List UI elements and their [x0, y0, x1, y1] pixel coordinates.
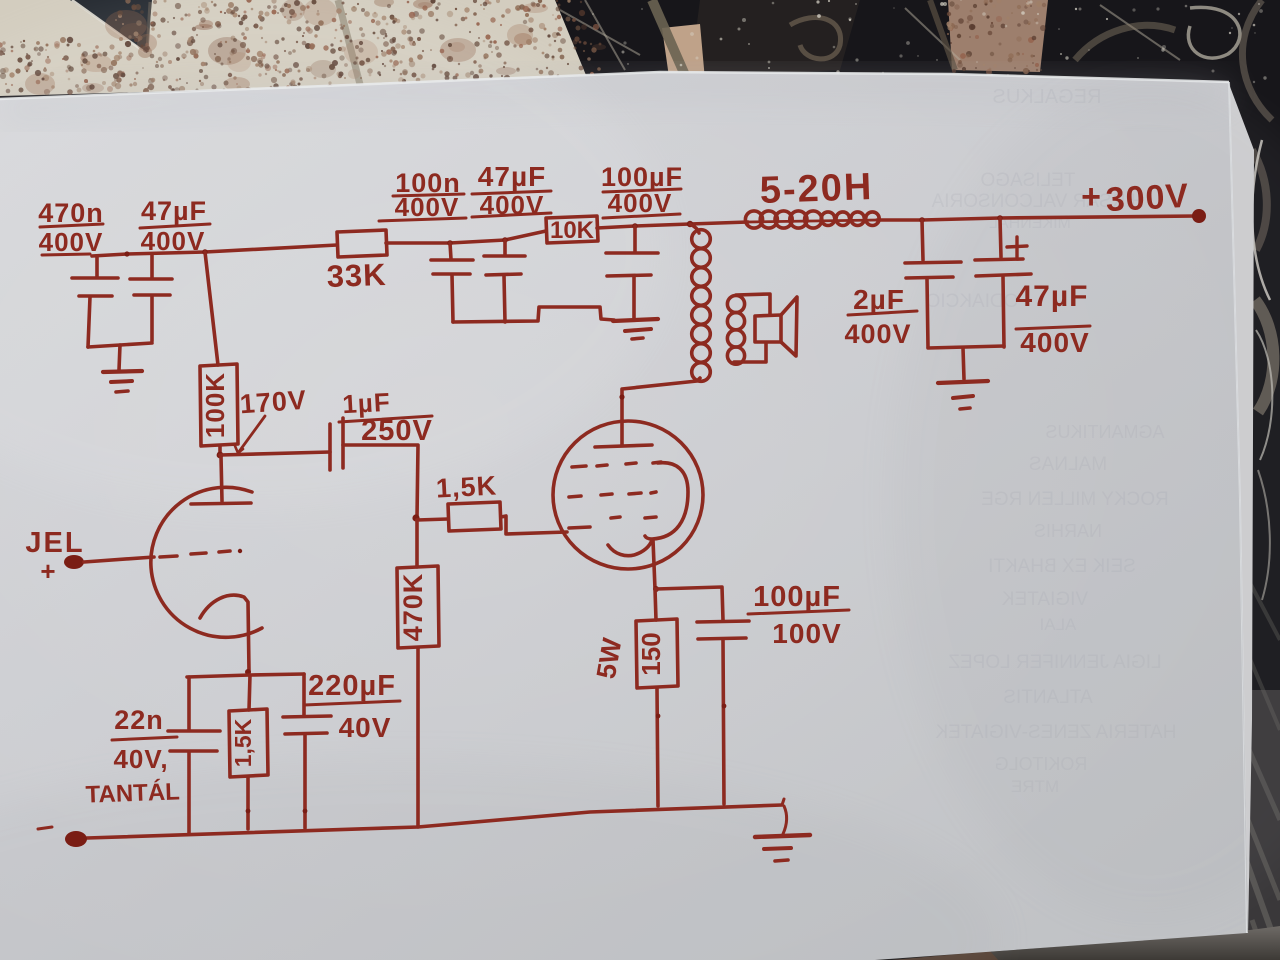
svg-text:ATLANTIS: ATLANTIS — [1003, 687, 1092, 708]
svg-text:+: + — [40, 556, 55, 586]
label C4 47uF/400V — [478, 161, 546, 220]
svg-text:NARHIS: NARHIS — [1034, 521, 1102, 541]
svg-text:47µF: 47µF — [141, 196, 207, 226]
ground symbol main — [755, 835, 810, 837]
svg-text:47µF: 47µF — [1016, 280, 1089, 313]
svg-text:400V: 400V — [141, 226, 206, 256]
svg-text:ROKITOLG: ROKITOLG — [995, 754, 1088, 774]
svg-text:400V: 400V — [39, 227, 104, 257]
wire rail 10K to choke — [597, 222, 748, 228]
label C6 2uF/400V — [844, 284, 911, 349]
svg-text:1,5K: 1,5K — [230, 718, 256, 767]
capacitor C9 22n/40V tantal — [187, 677, 191, 730]
anode V2 — [620, 421, 624, 445]
svg-text:100µF: 100µF — [753, 581, 841, 613]
label +300V — [1081, 177, 1190, 219]
tile ornaments — [1188, 7, 1240, 58]
svg-text:REGALKUS: REGALKUS — [993, 86, 1102, 108]
wire C8 to grid node — [343, 445, 418, 518]
capacitor C5 100uF/400V — [633, 226, 637, 252]
resistor R4 1,5K — [448, 502, 501, 531]
wire main ground bus — [87, 805, 782, 838]
svg-text:LIGIA JENNIFER LOPEZ: LIGIA JENNIFER LOPEZ — [948, 652, 1162, 673]
tube V1 envelope — [151, 487, 262, 637]
label C8 1uF/250V — [342, 387, 433, 447]
node JEL input terminal — [64, 555, 84, 569]
capacitor C8 1uF/250V coupling — [328, 424, 332, 470]
svg-text:TELISAGO: TELISAGO — [980, 170, 1075, 191]
plus mark C7 — [1007, 246, 1027, 247]
faint show-through text from reverse side — [926, 86, 1177, 796]
capacitor C4 47uF/400V mid — [503, 240, 507, 254]
resistor R7 150 5W — [636, 619, 678, 688]
ground symbol under C6 C7 — [938, 381, 988, 383]
svg-text:TANTÁL: TANTÁL — [85, 777, 180, 808]
wire C1 C2 common bottom — [88, 343, 152, 347]
wire bus to ground — [783, 806, 787, 834]
beam hook V2 — [645, 463, 688, 539]
wire rail down to R3 — [205, 252, 218, 365]
resistor R3 100K — [200, 364, 238, 446]
label JEL input — [25, 527, 84, 586]
svg-text:JEL: JEL — [25, 527, 84, 559]
svg-text:SEIK EX BHAKTI: SEIK EX BHAKTI — [988, 556, 1136, 577]
svg-text:2µF: 2µF — [853, 284, 905, 315]
svg-text:MALNAS: MALNAS — [1029, 454, 1107, 475]
node cathode junction — [245, 669, 251, 675]
capacitor C1 470n/400V — [95, 256, 99, 277]
wire cathode bus — [187, 674, 304, 677]
wire rail 33K to 10K — [386, 231, 546, 243]
label C2 47uF/400V — [141, 196, 207, 256]
svg-text:AGMANTIKUS: AGMANTIKUS — [1045, 422, 1164, 442]
svg-text:40V,: 40V, — [113, 744, 168, 774]
label C7 47uF/400V — [1016, 280, 1090, 358]
svg-text:470K: 470K — [398, 573, 428, 642]
label C11 100uF/100V — [753, 581, 842, 649]
svg-text:ALAI: ALAI — [1040, 615, 1077, 634]
wire to R4 — [417, 519, 448, 520]
wire cathode to R7 — [655, 589, 656, 620]
wire B+ rail left section — [92, 245, 337, 256]
wire cathode node to C11 — [656, 587, 723, 620]
inductor L1 5-20H choke loops — [748, 220, 878, 222]
grid V1 dashes — [160, 556, 177, 557]
resistor R5 470K — [397, 566, 439, 648]
resistor R6 1,5K cathode — [249, 675, 250, 710]
wire secondary to speaker top — [736, 294, 770, 315]
wire bus under C6 C7 — [928, 346, 1004, 348]
svg-text:VIGIATEK: VIGIATEK — [1002, 589, 1089, 610]
ground symbol left — [103, 371, 142, 372]
svg-text:100K: 100K — [200, 372, 230, 438]
svg-text:400V: 400V — [844, 319, 911, 349]
cathode V2 — [608, 540, 652, 556]
label C5 100uF/400V — [601, 162, 683, 218]
speckled tile patches top band — [0, 0, 588, 96]
wire secondary to speaker bottom — [734, 343, 766, 363]
grid rows V2 — [572, 466, 586, 467]
wire primary bottom to tube anode — [622, 378, 700, 421]
node grid junction — [412, 514, 419, 521]
node anode V1 junction — [217, 452, 224, 459]
capacitor C3 100n/400V — [450, 243, 451, 259]
anode V1 — [221, 456, 222, 501]
svg-text:33K: 33K — [326, 257, 387, 294]
wire R5 to ground bus — [416, 648, 420, 827]
capacitor C10 220uF/40V — [302, 674, 306, 715]
svg-text:HATERIA ZENES-VIGIATEK: HATERIA ZENES-VIGIATEK — [935, 722, 1176, 743]
wire bus end tick — [782, 799, 784, 805]
transformer T1 secondary winding — [727, 295, 744, 312]
svg-text:22n: 22n — [114, 705, 164, 735]
svg-text:300V: 300V — [1105, 177, 1190, 219]
svg-text:5-20H: 5-20H — [759, 166, 874, 212]
wire bus under C3 C4 — [453, 307, 614, 322]
resistor R2 10K — [546, 216, 598, 243]
node minus terminal — [65, 831, 87, 847]
capacitor C11 100uF/100V — [697, 621, 749, 622]
label 5-20H — [759, 166, 874, 212]
capacitor C7 47uF/400V electrolytic — [1000, 218, 1001, 257]
label 33K — [326, 257, 387, 294]
label C3 100n/400V — [395, 168, 461, 222]
wire R4 to V2 grid — [501, 516, 567, 534]
tile speckles — [229, 61, 232, 64]
wire anode to C8 — [220, 452, 330, 455]
svg-text:400V: 400V — [1020, 327, 1089, 358]
speaker LS1 — [755, 315, 781, 342]
wire R7 to bus — [657, 688, 658, 806]
node +300V terminal dot — [1192, 209, 1206, 223]
capacitor C6 2uF/400V — [922, 220, 923, 260]
transformer T1 primary winding — [692, 230, 711, 249]
svg-text:10K: 10K — [550, 217, 595, 244]
wire cathode V2 down — [653, 540, 655, 589]
capacitor C2 47uF/400V — [150, 255, 154, 278]
svg-text:220µF: 220µF — [308, 670, 396, 702]
svg-text:40V: 40V — [339, 712, 392, 743]
wire grid node down to R5 — [415, 520, 419, 567]
svg-text:+: + — [1081, 178, 1101, 216]
svg-text:170V: 170V — [239, 385, 308, 420]
svg-text:1,5K: 1,5K — [435, 470, 498, 503]
label 170V with pointer — [239, 385, 308, 420]
resistor R1 33K — [337, 230, 387, 257]
wire R3 to anode node — [218, 446, 222, 456]
label C1 470n/400V — [38, 198, 104, 257]
svg-text:100V: 100V — [772, 618, 841, 649]
node junction dots on rail — [124, 251, 129, 256]
svg-text:47µF: 47µF — [478, 161, 546, 192]
cathode V1 — [200, 595, 249, 671]
tile streaks — [560, 10, 640, 55]
bottom strip below paper — [868, 926, 1280, 960]
second sheet of paper behind — [1229, 84, 1254, 935]
svg-text:MTRE: MTRE — [1011, 777, 1059, 796]
label C9 22n/40V TANTAL — [85, 705, 180, 809]
label 10K inside — [550, 217, 595, 244]
svg-text:150: 150 — [636, 632, 666, 675]
wire JEL to grid — [84, 557, 154, 562]
svg-text:ROCKY MILLEN RGE: ROCKY MILLEN RGE — [981, 489, 1169, 510]
wire rail choke to +300V — [877, 216, 1196, 220]
tube V2 envelope — [553, 421, 703, 569]
label C10 220uF/40V — [308, 670, 396, 743]
ground symbol under C5 — [613, 319, 658, 321]
